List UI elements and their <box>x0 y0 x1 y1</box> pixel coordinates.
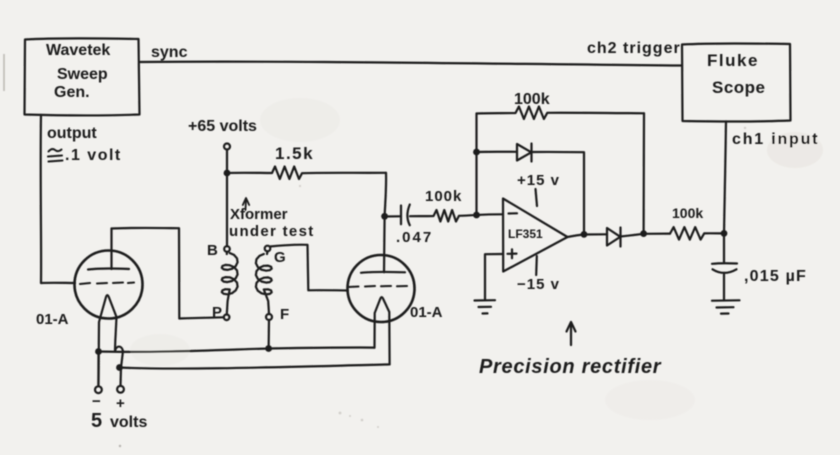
wire filament bus 2 <box>120 364 390 368</box>
diode D2 <box>607 228 620 246</box>
wire cap to ground <box>723 275 725 301</box>
diode D1 <box>517 144 531 161</box>
node V2 plate/cap <box>381 213 388 220</box>
svg-text:Precision rectifier: Precision rectifier <box>479 356 662 378</box>
resistor 100k input <box>410 210 477 222</box>
capacitor .015 top plate <box>712 262 737 265</box>
wire output vertical <box>40 115 43 283</box>
svg-text:01-A: 01-A <box>36 311 69 328</box>
paper smudges <box>130 98 823 420</box>
svg-text:.1 volt: .1 volt <box>65 147 122 164</box>
wire +65 down <box>226 150 228 174</box>
wire grid left tube <box>41 282 75 284</box>
capacitor .047 left plate <box>400 206 402 225</box>
wire filament bus 1 <box>99 348 375 352</box>
tube V2 filament <box>375 297 390 364</box>
wire node to cap <box>385 215 400 217</box>
box Wavetek Sweep Gen <box>25 38 140 115</box>
faint pencil specks <box>299 127 746 428</box>
wire G to right tube grid <box>270 245 348 291</box>
svg-text:G: G <box>274 249 286 266</box>
svg-text:P: P <box>212 304 222 321</box>
svg-text:LF351: LF351 <box>508 227 543 241</box>
svg-text:sync: sync <box>151 44 188 61</box>
svg-text:100k: 100k <box>672 205 703 221</box>
wire opamp output <box>568 234 608 237</box>
svg-text:Gen.: Gen. <box>54 84 90 101</box>
svg-text:100k: 100k <box>514 91 550 108</box>
arrow precision rectifier <box>567 322 576 345</box>
tube V1 filament <box>99 295 117 386</box>
capacitor .015 bottom plate <box>713 269 737 273</box>
wire diode branch <box>477 151 518 153</box>
svg-text:+15 v: +15 v <box>517 172 560 189</box>
resistor 1.5k <box>227 167 386 180</box>
svg-text:Scope: Scope <box>712 78 766 97</box>
tube V1 envelope <box>75 251 143 319</box>
wire plate V1 to P <box>112 228 224 319</box>
svg-text:−15 v: −15 v <box>517 276 560 293</box>
terminal F <box>266 314 272 320</box>
node F junction <box>265 345 272 352</box>
svg-text:,015 µF: ,015 µF <box>744 268 807 285</box>
svg-text:ch2 trigger: ch2 trigger <box>587 40 681 57</box>
tube V2 grid (dashed) <box>349 286 408 287</box>
svg-text:output: output <box>47 125 97 142</box>
svg-text:volts: volts <box>110 414 147 431</box>
diode D2 cathode bar <box>619 228 621 247</box>
wire plus input to ground <box>485 254 503 300</box>
transformer primary winding <box>222 252 238 314</box>
arrow over Xformer label <box>243 198 249 210</box>
svg-text:F: F <box>280 306 289 323</box>
wire F down <box>268 320 271 349</box>
wire ch1 vertical <box>724 122 726 234</box>
op-amp -15 lead <box>535 256 538 275</box>
svg-text:.047: .047 <box>396 229 433 246</box>
op-amp +15 lead <box>536 189 538 206</box>
tube V2 envelope <box>348 255 415 322</box>
svg-text:1.5k: 1.5k <box>275 144 314 163</box>
box Fluke Scope <box>682 44 791 122</box>
wire D2 to resistor <box>621 234 671 237</box>
resistor 100k feedback <box>477 107 645 120</box>
transformer secondary winding <box>256 251 272 313</box>
faint dot <box>119 445 121 447</box>
wire to B <box>226 173 228 246</box>
svg-text:Fluke: Fluke <box>707 51 759 70</box>
resistor 100k output <box>670 227 724 240</box>
svg-text:Sweep: Sweep <box>57 66 108 83</box>
ground output <box>712 300 740 313</box>
node output RC <box>721 230 728 237</box>
svg-text:5: 5 <box>91 410 102 432</box>
terminal +65 <box>224 144 230 150</box>
node opamp inverting <box>473 212 480 219</box>
tube V1 grid (dashed) <box>80 283 134 285</box>
node bus1 left <box>95 348 102 355</box>
wire sync <box>140 62 683 66</box>
node +65/1.5k <box>224 170 231 177</box>
wire ch1 from box <box>725 120 727 122</box>
faint scan mark left edge <box>3 54 5 91</box>
wire node to cap .015 <box>723 233 725 262</box>
svg-text:Xformer: Xformer <box>230 206 288 223</box>
node diode branch <box>473 149 480 156</box>
terminal G <box>265 246 271 252</box>
wire feedback vertical left <box>475 114 477 216</box>
tube V1 plate lead <box>110 229 112 270</box>
terminal minus <box>95 386 102 393</box>
op-amp U1 LF351 <box>503 199 568 272</box>
node feedback right <box>640 230 647 237</box>
wire V1 filament left down <box>97 352 99 387</box>
wire 1.5k down to node <box>385 173 387 217</box>
node opamp output <box>581 231 588 238</box>
wire feedback vertical right <box>642 113 645 233</box>
capacitor .047 right plate <box>407 205 409 226</box>
svg-text:+: + <box>116 395 125 412</box>
terminal B <box>224 246 230 252</box>
svg-text:under test: under test <box>229 223 315 240</box>
node bus2 left <box>116 364 123 371</box>
svg-text:ch1 input: ch1 input <box>732 131 819 148</box>
svg-text:B: B <box>207 242 218 259</box>
op-amp minus sign <box>509 212 518 214</box>
svg-text:+65 volts: +65 volts <box>188 118 257 135</box>
tube V2 plate <box>361 271 405 274</box>
terminal P <box>224 315 230 321</box>
terminal plus <box>117 386 124 393</box>
diode D1 cathode bar <box>530 144 532 162</box>
wire D1 to vertical <box>532 152 585 234</box>
op-amp plus sign <box>508 249 517 258</box>
svg-text:−: − <box>92 393 101 410</box>
tube V1 plate <box>88 269 129 270</box>
svg-text:01-A: 01-A <box>410 304 443 321</box>
tube V1 filament hop <box>115 347 123 386</box>
svg-text:100k: 100k <box>425 188 462 205</box>
svg-text:Wavetek: Wavetek <box>46 42 110 59</box>
symbol approx-equals <box>48 149 63 161</box>
tube V2 plate lead <box>383 217 386 273</box>
ground opamp <box>475 300 496 313</box>
wire to opamp minus <box>477 213 504 216</box>
